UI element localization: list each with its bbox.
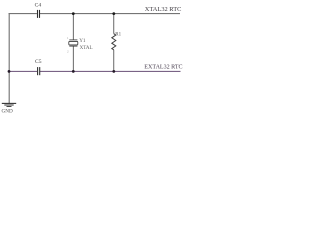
junction: top wire / R1 branch xyxy=(112,12,115,15)
svg-text:XTAL32 RTC: XTAL32 RTC xyxy=(145,6,182,13)
crystal Y1 bottom plate xyxy=(69,45,77,47)
wire: top net horizontal, right segment xyxy=(40,13,180,15)
crystal Y1 top plate xyxy=(69,39,77,41)
svg-text:C4: C4 xyxy=(35,3,42,9)
wire: bottom net EXTAL32_RTC horizontal, left segment xyxy=(9,70,37,72)
resistor R1 zigzag xyxy=(112,34,116,50)
svg-text:EXTAL32 RTC: EXTAL32 RTC xyxy=(144,65,182,71)
wire: R1 top branch xyxy=(113,14,115,34)
svg-text:1: 1 xyxy=(67,36,69,40)
junction: top wire / crystal branch xyxy=(72,12,75,15)
capacitor C5 plates xyxy=(37,67,39,75)
junction: bottom wire / crystal branch xyxy=(72,70,75,73)
wire: crystal bottom branch xyxy=(72,46,74,71)
svg-text:R1: R1 xyxy=(115,32,121,37)
wire: top net XTAL32_RTC horizontal, left segment xyxy=(9,13,37,15)
crystal Y1 body xyxy=(69,41,78,45)
capacitor C4 plates xyxy=(37,10,39,18)
ground symbol bars xyxy=(2,102,16,104)
junction: bottom wire / R1 branch xyxy=(112,70,115,73)
svg-text:C5: C5 xyxy=(35,59,42,65)
svg-text:Y1: Y1 xyxy=(79,38,86,44)
svg-text:XTAL: XTAL xyxy=(80,46,93,51)
wire: R1 bottom branch xyxy=(113,50,115,72)
wire: crystal top branch xyxy=(72,14,74,40)
svg-text:2: 2 xyxy=(67,50,69,54)
junction: bottom wire / left vertical xyxy=(8,70,11,73)
wire: left vertical from top wire down to ground xyxy=(8,13,10,103)
svg-text:GND: GND xyxy=(2,109,13,115)
wire: bottom net horizontal, right segment xyxy=(40,70,181,72)
